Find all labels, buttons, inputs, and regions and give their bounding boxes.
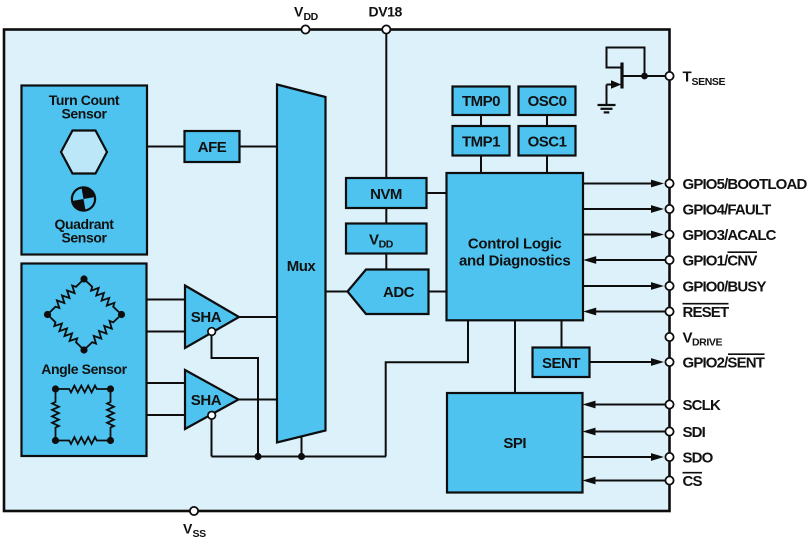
wire angle sensor to SHA2 lower input: [147, 414, 186, 416]
block Control Logic and Diagnostics: [447, 173, 584, 320]
block Mux: [277, 85, 326, 443]
wire SDI input: [594, 431, 666, 433]
wire VDD block to ADC: [385, 254, 387, 270]
wire control logic to SENT: [561, 320, 563, 347]
svg-text:V: V: [183, 521, 193, 537]
diamond bridge resistor top-left: [48, 279, 85, 315]
terminal GPIO3/ACALC: [665, 227, 776, 244]
wire AFE to Mux: [240, 146, 278, 148]
block OSC0: [519, 87, 576, 116]
square bridge resistor bottom: [56, 437, 111, 444]
block SPI: [447, 393, 583, 493]
terminal VDRIVE: [665, 329, 722, 348]
terminal GPIO2/SENT: [665, 354, 764, 371]
wire GPIO4 output: [583, 208, 653, 210]
terminal RESET: [665, 304, 729, 321]
diamond bridge resistor bottom-right: [84, 315, 122, 351]
wire ADC to control logic: [429, 291, 447, 293]
svg-text:GPIO3/ACALC: GPIO3/ACALC: [683, 227, 777, 244]
svg-text:SENT: SENT: [542, 355, 580, 372]
wire GPIO5 output: [583, 183, 653, 185]
wire SHA2 output to Mux: [239, 399, 278, 401]
op-amp SHA1: [185, 286, 239, 349]
svg-text:DRIVE: DRIVE: [692, 337, 722, 349]
svg-text:TMP0: TMP0: [462, 93, 500, 110]
svg-text:OSC0: OSC0: [528, 93, 567, 110]
terminal TSENSE: [665, 69, 725, 88]
block Angle Sensor: [22, 264, 147, 457]
arrowhead RESET in: [583, 308, 596, 316]
wire DV18 to NVM: [385, 31, 387, 178]
chip boundary: [4, 30, 670, 512]
svg-text:SS: SS: [193, 528, 207, 540]
block SENT: [533, 348, 590, 378]
turn count hexagon symbol: [61, 131, 107, 174]
svg-text:GPIO2/SENT: GPIO2/SENT: [683, 354, 765, 371]
svg-text:SCLK: SCLK: [683, 397, 721, 414]
wire SHA1 output to Mux: [239, 316, 277, 318]
block OSC1: [519, 126, 576, 156]
terminal GPIO0/BUSY: [665, 278, 766, 295]
terminal SDI: [665, 424, 705, 441]
block AFE: [185, 131, 240, 162]
wire GPIO1 input: [594, 259, 665, 261]
op-amp SHA2: [185, 370, 239, 429]
svg-text:AFE: AFE: [198, 139, 227, 156]
wire NVM to control logic: [427, 192, 447, 194]
svg-text:GPIO5/BOOTLOAD: GPIO5/BOOTLOAD: [683, 176, 808, 193]
arrowhead SCLK in: [583, 401, 596, 409]
svg-text:Control Logic: Control Logic: [468, 236, 562, 253]
quadrant sensor symbol: [70, 186, 97, 213]
wire GPIO0 output: [583, 285, 653, 287]
arrowhead GPIO0 out: [651, 282, 664, 290]
terminal SCLK: [665, 397, 721, 414]
junction dot bus-SHA1: [254, 453, 261, 460]
terminal VDD top: [294, 4, 319, 34]
wire angle sensor to SHA1 upper input: [147, 299, 186, 301]
terminal CS: [665, 473, 702, 490]
svg-text:RESET: RESET: [683, 304, 729, 321]
svg-text:DV18: DV18: [369, 4, 403, 20]
wire angle sensor to SHA2 upper input: [147, 382, 186, 384]
svg-text:NVM: NVM: [370, 186, 402, 203]
svg-text:Angle Sensor: Angle Sensor: [41, 361, 127, 377]
wire GPIO3 output: [583, 234, 653, 236]
arrowhead CS in: [583, 477, 596, 485]
terminal VSS bottom: [183, 507, 206, 540]
arrowhead GPIO2 out: [651, 358, 664, 366]
svg-text:CS: CS: [683, 473, 703, 490]
svg-text:ADC: ADC: [383, 284, 415, 301]
wire Mux bottom stub to bus: [301, 437, 303, 457]
svg-text:GPIO4/FAULT: GPIO4/FAULT: [683, 201, 772, 218]
block VDD regulator: [346, 224, 427, 254]
block ADC: [348, 270, 429, 315]
arrowhead SDI in: [583, 428, 596, 436]
junction dot bus-Mux: [298, 453, 305, 460]
terminal GPIO5/BOOTLOAD: [665, 176, 807, 193]
wire SHA2 node down to bus: [211, 419, 213, 457]
node SHA2 output circle: [208, 412, 216, 420]
wire NVM to VDD block: [385, 208, 387, 224]
arrowhead GPIO1 in: [583, 256, 596, 264]
wire control logic to SPI: [514, 320, 516, 393]
svg-text:V: V: [294, 4, 304, 20]
square bridge resistor left: [52, 389, 59, 441]
terminal GPIO4/FAULT: [665, 201, 771, 218]
svg-text:Sensor: Sensor: [61, 229, 107, 245]
terminal SDO: [665, 449, 713, 466]
svg-text:SDI: SDI: [683, 424, 706, 441]
transistor Q1 temperature sensor: [607, 48, 666, 106]
svg-text:TMP1: TMP1: [462, 133, 500, 150]
wire SCLK input: [594, 404, 666, 406]
junction dot drain-gate: [641, 73, 648, 80]
diamond bridge resistor top-right: [84, 279, 122, 315]
svg-text:SHA: SHA: [191, 392, 222, 409]
svg-text:V: V: [683, 329, 693, 346]
wire TMP0 to TMP1: [480, 115, 482, 126]
square bridge node dots: [52, 385, 114, 444]
wire angle sensor to SHA1 lower input: [147, 331, 186, 333]
square bridge resistor right: [107, 389, 114, 441]
wire OSC1 to control logic: [546, 156, 548, 174]
svg-text:SHA: SHA: [191, 309, 222, 326]
block TMP1: [453, 126, 510, 156]
arrowhead SDO out: [651, 453, 664, 461]
terminal GPIO1/CNV: [665, 252, 757, 269]
wire SENT to GPIO2: [590, 361, 654, 363]
wire OSC0 to OSC1: [546, 115, 548, 126]
diamond bridge node dots: [44, 275, 125, 353]
svg-text:DD: DD: [304, 11, 319, 23]
svg-text:Mux: Mux: [287, 258, 317, 275]
arrowhead GPIO3 out: [651, 231, 664, 239]
wire CS input: [594, 480, 666, 482]
block NVM: [346, 178, 427, 208]
wire RESET input: [594, 311, 665, 313]
terminal DV18 top: [369, 4, 403, 34]
svg-text:GPIO0/BUSY: GPIO0/BUSY: [683, 278, 767, 295]
wire SHA1 node down to bus: [212, 336, 259, 457]
svg-text:SENSE: SENSE: [692, 76, 726, 88]
wire bottom bus: [212, 456, 387, 458]
wire Mux to ADC: [326, 291, 348, 293]
wire TMP1 to control logic: [480, 156, 482, 174]
svg-text:OSC1: OSC1: [528, 133, 567, 150]
square bridge resistor top: [56, 386, 111, 393]
node SHA1 output circle: [208, 328, 216, 336]
transistor source arrowhead: [611, 80, 621, 88]
svg-text:SDO: SDO: [683, 449, 714, 466]
block Turn Count / Quadrant Sensor: [22, 86, 148, 255]
svg-text:Sensor: Sensor: [61, 105, 107, 121]
wire control logic down-left to bus: [386, 320, 468, 456]
svg-text:SPI: SPI: [503, 435, 526, 452]
svg-text:GPIO1/CNV: GPIO1/CNV: [683, 252, 758, 269]
ground symbol: [598, 105, 616, 112]
svg-text:T: T: [683, 69, 692, 86]
wire turn-count sensor to AFE: [147, 146, 185, 148]
svg-text:and Diagnostics: and Diagnostics: [459, 253, 570, 270]
arrowhead GPIO5 out: [651, 180, 664, 188]
arrowhead GPIO4 out: [651, 205, 664, 213]
diamond bridge resistor bottom-left: [48, 315, 85, 351]
block TMP0: [453, 87, 510, 116]
wire SDO output: [583, 456, 654, 458]
